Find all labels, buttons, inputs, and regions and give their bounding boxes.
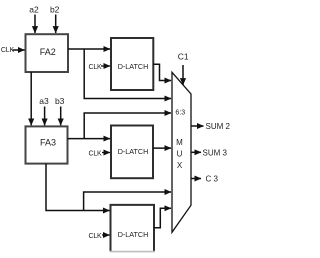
svg-text:D-LATCH: D-LATCH: [118, 62, 149, 71]
svg-text:FA2: FA2: [40, 47, 56, 57]
svg-text:M: M: [176, 138, 183, 147]
svg-text:C 3: C 3: [206, 175, 219, 184]
svg-text:a3: a3: [39, 96, 49, 106]
svg-text:6:3: 6:3: [175, 110, 185, 117]
svg-text:FA3: FA3: [40, 137, 56, 147]
svg-text:CLK: CLK: [88, 64, 102, 71]
svg-text:X: X: [177, 161, 183, 170]
svg-text:b2: b2: [50, 5, 60, 15]
svg-text:C1: C1: [178, 52, 189, 62]
svg-text:D-LATCH: D-LATCH: [118, 147, 149, 156]
svg-text:b3: b3: [55, 96, 65, 106]
svg-text:CLK: CLK: [88, 150, 102, 157]
svg-text:U: U: [177, 149, 183, 158]
svg-text:SUM 3: SUM 3: [203, 148, 228, 157]
svg-text:SUM 2: SUM 2: [206, 122, 231, 131]
svg-text:a2: a2: [29, 5, 39, 15]
svg-text:CLK: CLK: [88, 233, 102, 240]
svg-text:D-LATCH: D-LATCH: [118, 230, 149, 239]
svg-text:CLK: CLK: [1, 47, 15, 54]
